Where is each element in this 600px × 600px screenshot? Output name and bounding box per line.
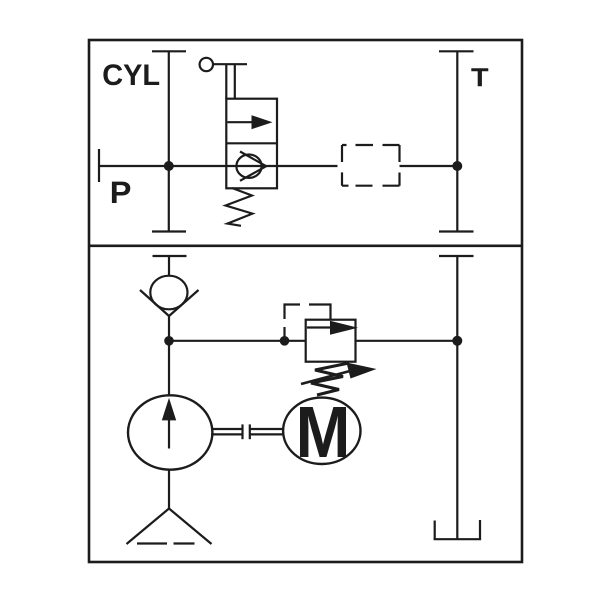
port tick suction line top (bottom section): [153, 255, 187, 257]
tank T2 symbol right wall: [479, 520, 481, 539]
wire P line right segment: [400, 165, 458, 167]
wire T vertical line: [456, 51, 458, 231]
node junction pilot tap: [280, 336, 290, 346]
wire P line middle segment: [277, 165, 338, 167]
enclosure border: [89, 40, 522, 562]
node junction at T line: [452, 161, 462, 171]
tank triangle right side: [169, 509, 212, 545]
tank T2 symbol bottom: [434, 538, 482, 540]
wire T return vertical (bottom section): [456, 256, 458, 539]
pump P1 circle: [128, 395, 212, 469]
wire relief valve to T line: [356, 340, 458, 342]
enclosure divider line: [89, 245, 522, 248]
shaft pump side rails: [211, 429, 242, 434]
wire P line left segment: [99, 165, 226, 167]
wire check valve to pump: [168, 316, 170, 396]
spring under valve V1: [226, 188, 253, 226]
valve V1 cell divider: [226, 142, 277, 144]
check valve CV1 ball: [150, 276, 187, 310]
relief valve RV1 pilot dashed line: [285, 305, 331, 341]
pilot vertical line left: [225, 64, 227, 99]
port P label: [112, 182, 130, 203]
shaft motor side rails: [250, 429, 284, 434]
relief valve RV1 adjustment arrow: [301, 363, 377, 385]
port CYL top tick: [152, 50, 186, 52]
port T label: [471, 68, 488, 86]
valve V1 flow arrow: [228, 115, 273, 129]
node junction on T return line: [452, 336, 462, 346]
node junction pump outlet: [164, 336, 174, 346]
port CYL bottom tick: [152, 230, 186, 232]
port T bottom tick: [439, 230, 474, 232]
motor M1 circle: [283, 398, 360, 464]
port T top tick: [439, 50, 474, 52]
wire CYL vertical line: [168, 51, 170, 231]
dashed component box: [342, 145, 400, 186]
port tick T return top: [439, 255, 474, 257]
tank triangle dashed base: [137, 542, 195, 544]
pump P1 flow arrow: [162, 398, 176, 449]
relief valve RV1 flow arrow: [307, 321, 358, 335]
pilot vertical line right: [234, 64, 236, 99]
coupling bar left: [241, 424, 243, 439]
wire pump to tank: [168, 469, 170, 509]
check valve inside V1: [236, 152, 266, 181]
coupling bar right: [249, 424, 251, 439]
motor M1 label: [300, 407, 346, 457]
port CYL label: [103, 64, 159, 85]
valve V1 body: [226, 99, 277, 189]
node junction P/CYL: [164, 161, 174, 171]
tank T2 symbol left wall: [434, 521, 436, 540]
wire through V1 lower cell: [226, 165, 277, 167]
check valve CV1 seat: [140, 290, 199, 316]
wire check valve top lead: [168, 256, 170, 275]
tank triangle left side: [127, 509, 170, 545]
port P tick: [98, 149, 100, 182]
pilot horizontal line: [213, 63, 247, 65]
relief valve RV1 spring: [311, 363, 349, 395]
wire pump outlet to relief valve: [169, 340, 306, 342]
relief valve RV1 body: [306, 320, 356, 362]
pilot circle actuator: [200, 58, 213, 71]
